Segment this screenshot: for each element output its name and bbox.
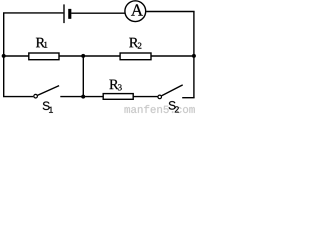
junction dot: middle node / bottom row (81, 95, 85, 99)
label R2 (129, 38, 141, 49)
wire: bottom row from left rail to switch S1 (3, 96, 33, 98)
switch S1: lever (open) (37, 86, 59, 96)
wire: top segment from ammeter to top-right corner (146, 11, 194, 13)
wire: middle row right segment (R2 to right rail) (151, 55, 194, 57)
wire: middle row segment between R1 and R2 (59, 55, 120, 57)
label R3 (109, 80, 121, 91)
wire: bottom row from S1 fixed contact to middle node (60, 96, 83, 98)
switch S2: pivot circle (158, 95, 162, 99)
battery cell: long plate (left) (63, 4, 65, 23)
watermark manfen5.com (125, 105, 195, 113)
resistor R2: box (120, 53, 151, 60)
wire: S2 fixed contact to bottom-right corner (182, 97, 194, 99)
resistor R1: box (29, 53, 59, 60)
wire: top segment from battery to ammeter (71, 12, 124, 14)
wire: right vertical from top-right corner down to S2 fixed contact (193, 12, 195, 98)
wire: bottom row from R3 to switch S2 (133, 96, 158, 98)
junction dot: left rail / middle row (2, 54, 6, 58)
wire: bottom row from middle node to R3 (83, 96, 103, 98)
junction dot: right rail / middle row (192, 54, 196, 58)
switch S2: lever (open) (162, 85, 183, 96)
label R1 (36, 38, 47, 48)
ammeter A1: letter A (131, 4, 143, 15)
label S1 (43, 102, 53, 113)
label S2 (169, 101, 179, 112)
wire: middle vertical between middle-row node and bottom-row node (82, 56, 84, 97)
resistor R3: box (103, 94, 133, 100)
switch S1: pivot circle (34, 94, 38, 98)
junction dot: middle node / middle row (81, 54, 85, 58)
wire: middle row left segment (left rail to R1) (4, 55, 29, 57)
battery cell: short thick plate (right) (68, 9, 71, 19)
ammeter A1: circle body (125, 1, 146, 22)
wire: left vertical (top-left corner down to bottom-left corner) (3, 13, 5, 97)
wire: top segment from left corner to battery (3, 12, 63, 14)
